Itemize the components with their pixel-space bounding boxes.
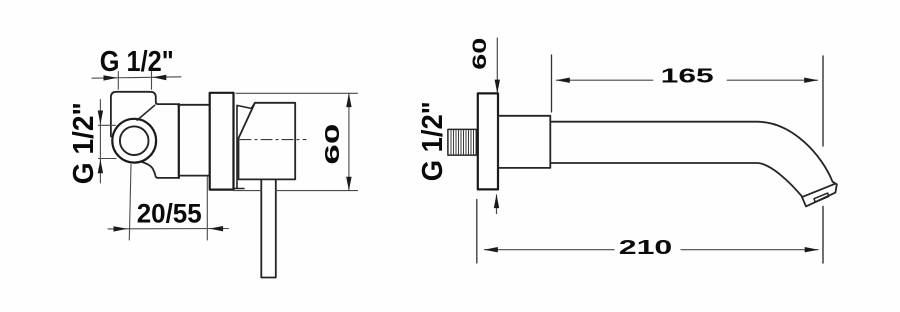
wall flange (escutcheon)	[210, 93, 234, 190]
dim 60 left drawing: top arrow	[346, 93, 351, 107]
svg-text:G 1/2": G 1/2"	[417, 101, 449, 181]
aerator end piece	[802, 184, 837, 207]
dim 165: left arrowhead	[556, 78, 570, 83]
aerator screen inner rect	[814, 193, 829, 202]
svg-text:210: 210	[619, 237, 673, 259]
dim 60 right: up arrow line	[496, 195, 498, 214]
dim 210: right segment with arrow	[681, 249, 818, 251]
dim 165: left segment with arrow	[557, 79, 653, 81]
cartridge inner circle	[120, 126, 149, 155]
dim G1/2 top: left arrow	[104, 75, 118, 80]
spout tube top edge and outer curve	[550, 122, 835, 184]
valve block body	[111, 92, 156, 137]
dim 165/210: right extension line (interrupted by spout)	[822, 56, 824, 263]
dim 60 left drawing: top extension line	[236, 92, 358, 94]
dim 60 left drawing: dimension line	[348, 93, 350, 190]
threaded stub outline	[448, 129, 476, 155]
svg-text:G 1/2": G 1/2"	[68, 102, 100, 184]
handle body block	[239, 103, 296, 180]
cartridge outer circle	[112, 119, 156, 163]
dim 210: left extension line	[476, 200, 478, 264]
dim 60 left drawing: bottom arrow	[346, 177, 351, 191]
dim 165: right segment with arrow	[727, 79, 817, 81]
cylinder section top edge	[179, 104, 210, 106]
wedge behind flange top	[234, 103, 255, 189]
neck bottom edge	[158, 177, 179, 179]
spout tube bottom edge and inner curve	[550, 163, 802, 197]
diagonal detail line	[137, 105, 155, 120]
dim 20/55: left arrow	[114, 226, 128, 231]
svg-text:165: 165	[661, 66, 714, 88]
svg-text:G 1/2": G 1/2"	[100, 46, 174, 78]
dim G1/2 top: right arrow	[153, 75, 167, 80]
dim 20/55: right arrow	[209, 226, 223, 231]
svg-text:60: 60	[469, 38, 491, 70]
valve block step to neck	[156, 102, 179, 106]
dim 210: left arrowhead	[484, 247, 498, 252]
dim 60 right: down arrow line	[496, 38, 498, 93]
dim 60 right: down arrowhead	[495, 80, 500, 94]
dim 20/55: right extension line	[206, 176, 208, 240]
dim G1/2 left: extension lines	[99, 125, 117, 158]
dim G1/2 left: top arrow	[98, 111, 103, 125]
dim 20/55: dimension line	[108, 228, 229, 230]
thread hatch lines	[451, 131, 474, 155]
handle stem	[261, 180, 276, 278]
dim G1/2 top: dimension line	[92, 77, 181, 78]
dim G1/2 left: bottom arrow	[98, 160, 103, 174]
dim 60 left drawing: bottom extension line (interrupted by stem)	[233, 190, 358, 192]
centerline dash-dot	[240, 139, 306, 141]
spout flange	[478, 93, 498, 189]
spout base cylinder	[498, 116, 550, 168]
cylinder section bottom edge	[179, 175, 210, 177]
dim 165: left extension line	[551, 55, 553, 112]
dim 60 right: up arrowhead	[494, 194, 499, 208]
svg-text:60: 60	[322, 124, 344, 165]
dim 165: right arrowhead	[804, 78, 818, 83]
outlet S-curve from circle to neck bottom	[141, 162, 159, 178]
neck joint vertical line	[178, 104, 180, 178]
dim 210: left segment with arrow	[485, 249, 615, 251]
dim 20/55: leader line from circle	[129, 165, 131, 241]
dim G1/2 left: dimension line	[99, 100, 101, 184]
dim 210: right arrowhead	[805, 247, 819, 252]
dim G1/2 top: extension lines	[118, 72, 151, 90]
svg-text:20/55: 20/55	[137, 199, 202, 229]
